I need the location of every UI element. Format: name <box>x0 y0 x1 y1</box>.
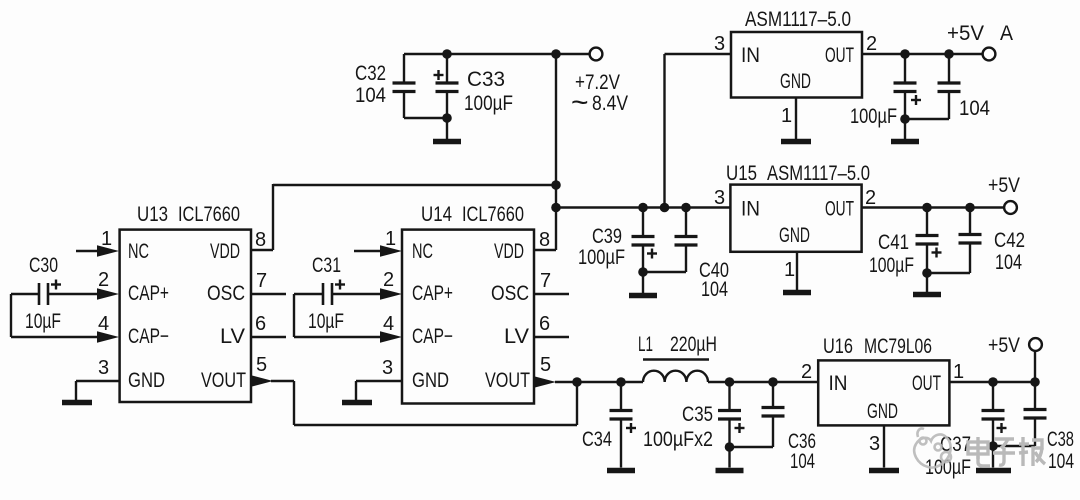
svg-text:8: 8 <box>255 229 266 251</box>
arrow into U13 pin 2 <box>97 288 119 300</box>
wire negative rail y=382 left <box>555 381 643 383</box>
wire U13 OSC stub <box>251 293 286 295</box>
arrow into U14 pin 1 <box>380 245 402 257</box>
wire VDD link y=185 <box>273 184 556 186</box>
capacitor C40 <box>643 208 698 273</box>
wire U14 pin8 stub <box>534 249 556 251</box>
svg-text:GND: GND <box>128 369 165 392</box>
svg-text:+5V: +5V <box>988 334 1020 357</box>
wire U14 CAP+ <box>332 293 381 295</box>
svg-text:CAP+: CAP+ <box>128 282 169 305</box>
regulator ASM1117-5.0 (top) <box>731 32 862 98</box>
svg-text:OSC: OSC <box>491 282 529 305</box>
svg-text:2: 2 <box>801 361 812 383</box>
svg-text:IN: IN <box>741 198 760 221</box>
wire +5V drop (U16 out) <box>1034 351 1036 382</box>
svg-text:8.4V: 8.4V <box>592 92 628 115</box>
capacitor C36 <box>762 382 785 447</box>
svg-text:IN: IN <box>829 372 848 395</box>
node junction bottom feed <box>572 377 582 387</box>
svg-text:4: 4 <box>383 313 394 335</box>
capacitor C38 <box>993 382 1047 446</box>
svg-text:C34: C34 <box>582 428 612 451</box>
svg-text:VOUT: VOUT <box>201 369 246 392</box>
ground U14 <box>342 400 372 406</box>
arrow into U14 pin 2 <box>380 288 402 300</box>
svg-text:3: 3 <box>98 357 109 379</box>
node junction C36 <box>768 377 778 387</box>
svg-text:C33: C33 <box>467 68 505 91</box>
svg-text:ASM1117–5.0: ASM1117–5.0 <box>745 8 851 31</box>
svg-text:LV: LV <box>504 325 529 348</box>
watermark logo <box>914 428 951 467</box>
capacitor 100uF (ASM1117 out) <box>894 54 950 119</box>
wire U14 GND <box>356 381 402 400</box>
svg-text:1: 1 <box>781 105 792 127</box>
svg-text:U14: U14 <box>421 203 452 226</box>
svg-text:104: 104 <box>995 251 1022 274</box>
wire C39 node y=207.5 <box>556 206 730 208</box>
arrow out of U14 pin 5 VOUT <box>534 376 556 388</box>
svg-text:VOUT: VOUT <box>485 369 530 392</box>
svg-text:7: 7 <box>256 270 267 292</box>
svg-text:~: ~ <box>571 86 589 119</box>
node junction C41 bottom <box>922 268 932 278</box>
svg-text:CAP+: CAP+ <box>412 282 453 305</box>
arrow into U14 pin 4 <box>380 331 402 343</box>
svg-text:U13: U13 <box>137 203 168 226</box>
svg-text:U15: U15 <box>726 162 757 185</box>
svg-text:GND: GND <box>867 400 898 423</box>
svg-text:100µFx2: 100µFx2 <box>643 428 713 451</box>
ground below C33 <box>433 118 461 142</box>
IC U14 ICL7660 <box>402 230 534 404</box>
capacitor C30 <box>39 280 61 306</box>
svg-text:OUT: OUT <box>825 198 854 221</box>
svg-text:IN: IN <box>741 44 760 67</box>
node C39 rail junction <box>551 203 561 213</box>
wire C30 loop <box>11 294 98 337</box>
svg-text:104: 104 <box>701 278 728 301</box>
node rail-C33 junction <box>442 49 452 59</box>
wire U14 OSC stub <box>534 293 569 295</box>
svg-text:220µH: 220µH <box>670 333 717 356</box>
svg-text:VDD: VDD <box>494 240 524 263</box>
arrow into U13 pin 1 <box>97 245 119 257</box>
svg-text:C31: C31 <box>312 254 341 277</box>
svg-text:6: 6 <box>255 313 266 335</box>
ground below C39 <box>629 272 657 296</box>
regulator U16 MC79L06 <box>818 360 949 425</box>
wire U13 CAP+ <box>48 293 98 295</box>
ground below C41 <box>913 273 941 295</box>
wire U13 NC input <box>76 250 98 252</box>
wire U13 GND <box>76 381 120 400</box>
svg-text:GND: GND <box>412 369 449 392</box>
capacitor 104 (ASM1117 out) <box>938 54 961 119</box>
arrow into U13 pin 4 <box>97 331 119 343</box>
terminal +5V A <box>983 48 996 61</box>
svg-text:5: 5 <box>256 354 267 376</box>
svg-text:C32: C32 <box>355 62 386 85</box>
node junction C42 <box>965 203 975 213</box>
svg-text:7: 7 <box>540 270 551 292</box>
svg-text:GND: GND <box>779 224 810 247</box>
svg-text:6: 6 <box>539 313 550 335</box>
svg-text:3: 3 <box>382 357 393 379</box>
node junction C34 <box>616 377 626 387</box>
ground ASM1117 GND pin <box>781 98 811 142</box>
wire U16 OUT <box>949 381 1035 383</box>
watermark text dian <box>968 437 990 466</box>
svg-text:C39: C39 <box>592 225 622 248</box>
node junction C39 <box>638 203 648 213</box>
node junction C33 bottom <box>442 113 452 123</box>
wire U15 OUT <box>862 206 1004 208</box>
node junction C35 bottom <box>725 442 735 452</box>
regulator U15 ASM1117-5.0 <box>730 185 861 252</box>
svg-text:ICL7660: ICL7660 <box>178 203 240 226</box>
svg-text:ICL7660: ICL7660 <box>462 203 524 226</box>
svg-text:ASM1117–5.0: ASM1117–5.0 <box>767 162 870 185</box>
svg-text:CAP−: CAP− <box>128 325 169 348</box>
node junction C41 <box>922 203 932 213</box>
terminal +5V (U15 out) <box>1004 201 1017 214</box>
capacitor C39 <box>632 208 658 273</box>
capacitor C34 <box>610 382 637 468</box>
capacitor C41 <box>916 208 971 274</box>
wire riser x=664.5 to ASM1117 IN <box>663 54 665 208</box>
wire +7.2V rail top <box>404 53 590 55</box>
svg-text:+5V: +5V <box>947 22 984 45</box>
node junction riser <box>660 203 670 213</box>
svg-text:NC: NC <box>128 240 149 263</box>
svg-text:C30: C30 <box>29 254 58 277</box>
ground U15 GND pin <box>783 252 811 293</box>
svg-text:10µF: 10µF <box>308 310 344 333</box>
node junction C37 <box>988 377 998 387</box>
svg-text:2: 2 <box>98 269 109 291</box>
svg-text:4: 4 <box>98 313 109 335</box>
svg-text:OSC: OSC <box>207 282 245 305</box>
wire U14 NC input <box>354 250 381 252</box>
svg-text:NC: NC <box>412 240 433 263</box>
svg-text:L1: L1 <box>638 333 653 356</box>
value label L1 220uH <box>643 358 709 360</box>
node VDD link junction <box>551 180 561 190</box>
capacitor C31 <box>323 280 345 306</box>
node junction C40 <box>681 203 691 213</box>
wire U13 LV stub <box>251 336 286 338</box>
svg-text:2: 2 <box>383 269 394 291</box>
capacitor C42 <box>959 208 982 274</box>
node junction C39 bottom <box>638 267 648 277</box>
inductor L1 <box>643 371 708 382</box>
svg-text:OUT: OUT <box>912 372 941 395</box>
wire ASM1117 OUT <box>862 53 983 55</box>
terminal +5V (U16 out) <box>1029 338 1042 351</box>
svg-text:3: 3 <box>714 33 725 55</box>
svg-text:GND: GND <box>780 70 811 93</box>
wire U13 VOUT routing <box>271 381 577 425</box>
svg-text:1: 1 <box>953 361 964 383</box>
svg-text:C42: C42 <box>994 229 1025 252</box>
node rail-main junction <box>551 49 561 59</box>
capacitor C37 <box>982 382 1007 446</box>
svg-text:104: 104 <box>355 84 386 107</box>
ground below C34 <box>607 468 635 474</box>
node junction C38 <box>1030 377 1040 387</box>
capacitor C33 <box>434 54 459 118</box>
wire vertical feed x=556 <box>555 54 557 250</box>
svg-text:MC79L06: MC79L06 <box>864 335 932 358</box>
watermark text zi <box>993 439 1015 465</box>
node junction 100uF <box>900 49 910 59</box>
svg-text:+5V: +5V <box>988 174 1020 197</box>
svg-text:100µF: 100µF <box>850 105 897 128</box>
ground U13 <box>62 400 92 406</box>
IC U13 ICL7660 <box>120 230 251 402</box>
svg-text:100µF: 100µF <box>869 254 914 277</box>
node junction 100uF bottom <box>900 114 910 124</box>
svg-text:1: 1 <box>385 228 396 250</box>
node junction C37 bottom <box>988 441 998 451</box>
wire C31 loop <box>294 294 381 337</box>
svg-text:C38: C38 <box>1047 428 1074 451</box>
svg-text:2: 2 <box>866 33 877 55</box>
svg-text:1: 1 <box>784 259 795 281</box>
svg-text:3: 3 <box>714 187 725 209</box>
terminal +7.2V <box>590 48 603 61</box>
svg-text:104: 104 <box>1048 450 1074 473</box>
node junction 104 <box>944 49 954 59</box>
svg-text:A: A <box>1000 22 1013 45</box>
capacitor C35 <box>718 382 773 447</box>
svg-text:C41: C41 <box>878 231 909 254</box>
svg-text:104: 104 <box>959 97 990 120</box>
svg-text:U16: U16 <box>823 335 853 358</box>
wire U14 LV stub <box>534 336 569 338</box>
svg-text:104: 104 <box>790 450 815 473</box>
wire ASM1117 IN <box>665 53 732 55</box>
svg-text:2: 2 <box>865 187 876 209</box>
svg-text:VDD: VDD <box>210 240 240 263</box>
wire U13 pin8 riser <box>251 184 273 250</box>
svg-text:10µF: 10µF <box>25 310 61 333</box>
svg-text:100µF: 100µF <box>578 246 625 269</box>
capacitor C32 <box>393 54 448 118</box>
ground below C35 <box>716 447 744 471</box>
svg-text:CAP−: CAP− <box>412 325 453 348</box>
ground below C37 <box>976 446 1011 471</box>
arrow out of U13 pin 5 VOUT <box>251 375 273 387</box>
svg-text:C35: C35 <box>682 403 713 426</box>
svg-text:100µF: 100µF <box>464 92 513 115</box>
svg-text:3: 3 <box>869 433 880 455</box>
svg-text:LV: LV <box>220 325 245 348</box>
ground U16 GND pin <box>869 425 899 470</box>
node junction C35 <box>725 377 735 387</box>
watermark text bao <box>1019 437 1045 466</box>
ground below 100uF <box>891 119 919 142</box>
svg-text:OUT: OUT <box>825 44 854 67</box>
svg-text:8: 8 <box>539 229 550 251</box>
wire negative rail y=382 right <box>708 381 818 383</box>
svg-text:5: 5 <box>540 354 551 376</box>
